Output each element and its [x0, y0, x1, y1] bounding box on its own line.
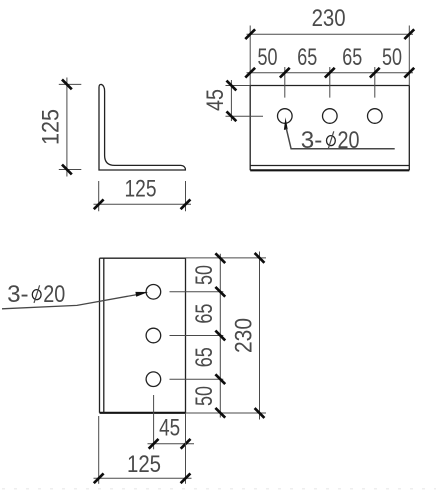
dimension 230 front dim line [259, 252, 261, 420]
svg-text:65: 65 [191, 347, 218, 367]
phi symbol front view [32, 290, 41, 300]
svg-text:3-: 3- [301, 127, 323, 154]
dimension 125 horizontal (side view) extension stubs [99, 181, 186, 211]
hole axis extension lines front view [170, 292, 224, 379]
tick right of 230 top [404, 29, 414, 39]
hole 1 front view [146, 285, 161, 300]
svg-text:20: 20 [338, 127, 360, 154]
plate top view bend line [250, 165, 409, 167]
dimension 50/65/65/50 top dim line [247, 72, 414, 74]
plate front view bottom edge (thick) [100, 412, 186, 414]
leader line front view [2, 295, 137, 309]
svg-text:125: 125 [38, 109, 65, 145]
plate top view bottom edge (thick) [250, 169, 409, 171]
dimension 125 vertical (side view) extension stubs [59, 84, 82, 169]
svg-text:65: 65 [297, 44, 317, 71]
tick left of 230 top [245, 29, 255, 39]
dimension 125 horizontal (side view) dim line [94, 203, 192, 205]
tick left of 125 front [94, 473, 104, 483]
tick left of 125 horizontal [94, 199, 104, 209]
svg-text:50: 50 [191, 386, 218, 406]
extension lines for 230 top dimension [250, 26, 409, 86]
leader arrowhead into hole 1 front view [135, 292, 148, 297]
hole 3 front view [146, 372, 161, 387]
tick right of 45 front [181, 439, 191, 449]
dimension 125 front dim line [94, 477, 192, 479]
tick top of 230 front [255, 253, 265, 263]
hole 3 top view [368, 109, 383, 124]
svg-text:230: 230 [312, 5, 346, 32]
angle profile L cross-section (side view) [99, 84, 185, 170]
hole 2 top view [323, 109, 338, 124]
svg-text:65: 65 [342, 44, 362, 71]
svg-text:20: 20 [43, 281, 65, 308]
hole 1 top view [278, 109, 293, 124]
tick top of 45 [227, 81, 237, 91]
plate front view outline [100, 258, 186, 413]
dimension 50/65/65/50 front dim line [219, 254, 221, 418]
svg-text:230: 230 [231, 318, 258, 353]
tick bottom of 125 vertical [62, 165, 72, 175]
tick bottom of 45 [227, 111, 237, 121]
ticks of 50/65/65/50 top [245, 68, 414, 78]
tick top of 125 vertical [62, 80, 72, 90]
hole center lines top view [285, 67, 375, 98]
svg-text:125: 125 [125, 176, 157, 203]
svg-text:50: 50 [191, 265, 218, 285]
tick left of 45 front [149, 439, 159, 449]
ticks of 50/65/65/50 front [215, 253, 225, 417]
tick bottom of 230 front [255, 408, 265, 418]
extension top of 45 (plate edge extension) [226, 85, 251, 87]
dimension 45 top view dim line [230, 80, 232, 121]
plate top view outline [250, 86, 409, 171]
extension bottom of 45 (hole axis) [226, 115, 264, 117]
svg-text:45: 45 [202, 89, 229, 111]
svg-text:125: 125 [127, 451, 161, 478]
plate front view bend line (left inner) [103, 258, 105, 413]
tick right of 125 front [181, 473, 191, 483]
extension right of 125/45 front [185, 413, 187, 484]
extension left of 45 front (hole axis) [153, 395, 155, 449]
leader arrowhead into hole 1 top view [284, 117, 288, 130]
extension left of 125 front [98, 416, 100, 484]
dimension 45 front dim line [148, 443, 195, 445]
tick right of 125 horizontal [181, 199, 191, 209]
bottom edge extension front view [186, 412, 267, 414]
svg-text:65: 65 [191, 304, 218, 324]
leader line top view [286, 129, 394, 149]
top edge extension front view [186, 257, 267, 259]
phi symbol top view [327, 136, 336, 146]
svg-text:45: 45 [159, 415, 180, 442]
svg-text:50: 50 [382, 44, 402, 71]
hole 2 front view [146, 328, 161, 343]
dimension 230 top dim line [247, 33, 414, 35]
dimension 125 vertical (side view) dim line [66, 78, 68, 177]
faint cut-off text row at bottom edge [2, 488, 436, 490]
svg-text:3-: 3- [7, 281, 29, 308]
svg-text:50: 50 [258, 44, 278, 71]
